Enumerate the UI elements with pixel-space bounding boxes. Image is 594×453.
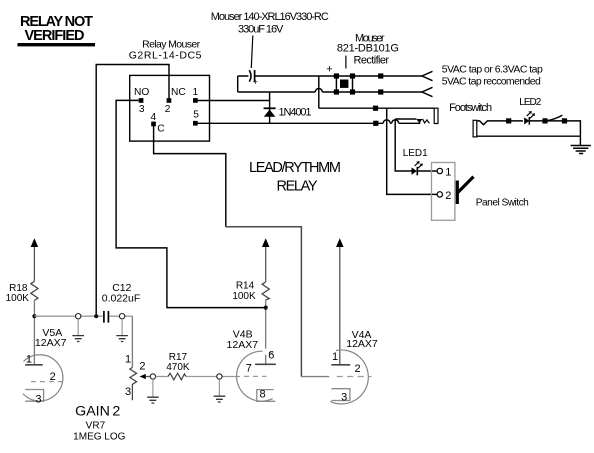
- svg-text:1: 1: [125, 353, 131, 365]
- svg-text:6: 6: [268, 350, 274, 362]
- svg-text:330uF 16V: 330uF 16V: [238, 23, 284, 35]
- svg-text:Rectifier: Rectifier: [354, 54, 390, 66]
- svg-text:5VAC tap reccomended: 5VAC tap reccomended: [442, 75, 541, 87]
- svg-text:3: 3: [125, 386, 131, 398]
- wire wiper circle to R17: [156, 376, 168, 378]
- tube V4B grid dashes: [244, 375, 267, 377]
- svg-text:2: 2: [139, 360, 145, 372]
- svg-text:+: +: [253, 76, 258, 86]
- relay K1 label Relay Mouser G2RL-14-DC5: [129, 39, 202, 62]
- tube V4A envelope: [330, 350, 368, 404]
- svg-text:8: 8: [259, 388, 265, 400]
- panel switch toggle lever: [457, 177, 473, 204]
- svg-text:Panel Switch: Panel Switch: [476, 198, 529, 209]
- wire NO to R14 junction: [116, 100, 266, 307]
- resistor R17: [168, 373, 186, 380]
- relay K1 pin 5 pad: [193, 121, 198, 126]
- resistor R14: [262, 282, 269, 300]
- svg-text:2: 2: [165, 104, 171, 115]
- svg-text:3: 3: [139, 104, 145, 115]
- wire hop 2 on pin5 line: [392, 120, 399, 124]
- tube V4B envelope: [237, 349, 273, 402]
- panel switch terminal 2: [437, 190, 451, 202]
- wire line A plus supply: [238, 75, 422, 77]
- svg-text:12AX7: 12AX7: [227, 339, 259, 351]
- svg-text:100K: 100K: [6, 293, 30, 304]
- svg-text:NO: NO: [134, 87, 149, 98]
- label LEAD/RYTHMM RELAY: [249, 160, 341, 195]
- tube V4B cathode: [257, 390, 275, 402]
- pot VR7 pin labels: [125, 353, 146, 398]
- tube V4A label: [346, 329, 378, 350]
- svg-text:3: 3: [35, 393, 41, 405]
- junction pads on AC lines: [378, 73, 383, 94]
- svg-text:Mouser 140-XRL16V330-RC: Mouser 140-XRL16V330-RC: [211, 11, 329, 23]
- tube V5A envelope: [23, 355, 63, 401]
- tube V5A label: [35, 327, 67, 349]
- label plus near rectifier: [326, 63, 332, 75]
- wire C12 right with terminal circle and ground: [110, 314, 133, 342]
- label LED1: [403, 148, 428, 159]
- svg-text:VERIFIED: VERIFIED: [25, 28, 85, 44]
- svg-text:1MEG LOG: 1MEG LOG: [73, 431, 125, 442]
- wire R18 to V5A plate: [33, 301, 35, 365]
- capacitor C-filter label Mouser 140-XRL16V330-RC 330uF 16V: [211, 11, 329, 68]
- svg-text:7: 7: [246, 363, 252, 375]
- junction pad footswitch line left: [506, 118, 511, 123]
- label R14 100K: [232, 281, 256, 302]
- wire LED1 to panel switch pin1: [417, 170, 437, 172]
- svg-text:Relay Mouser: Relay Mouser: [142, 39, 201, 51]
- resistor R18: [31, 281, 38, 300]
- wire R17 to V4B grid: [186, 376, 240, 378]
- arrowhead line B 5VAC tap: [422, 87, 433, 96]
- svg-text:GAIN: GAIN: [75, 403, 110, 419]
- svg-text:1: 1: [26, 354, 32, 366]
- svg-text:12AX7: 12AX7: [35, 337, 67, 349]
- label C12 0.022uF: [102, 282, 141, 305]
- svg-text:12AX7: 12AX7: [346, 338, 378, 350]
- resistor R18 supply arrow: [31, 238, 39, 281]
- svg-text:2: 2: [355, 363, 361, 375]
- terminal circle pot wiper with ground: [147, 374, 159, 403]
- tube V5A grid dashes: [31, 381, 62, 383]
- tube V5A pin labels: [26, 354, 56, 406]
- svg-text:4: 4: [150, 112, 156, 123]
- svg-text:1N4001: 1N4001: [279, 106, 312, 118]
- wire relay pin5 line with hops: [195, 122, 420, 124]
- node junction NC wire on C12 line: [94, 314, 98, 318]
- svg-text:C: C: [157, 124, 164, 135]
- wire line B: [238, 91, 422, 93]
- junction pad switch pivot: [542, 118, 547, 123]
- wire R14 to V4B plate: [265, 300, 267, 365]
- label 1N4001: [279, 106, 312, 118]
- potentiometer VR7: [130, 367, 150, 400]
- relay K1 pin labels: [134, 87, 199, 134]
- relay K1 pin NO/3 pad: [139, 98, 144, 103]
- junction pad on jack top line: [373, 106, 378, 111]
- wire C12 line: [34, 315, 102, 317]
- wire LED2 to right with switch: [477, 121, 581, 136]
- svg-text:G2RL-14-DC5: G2RL-14-DC5: [129, 50, 202, 62]
- svg-text:LED1: LED1: [403, 148, 428, 159]
- terminal circle on R17 line with ground: [214, 374, 226, 402]
- tube V4A pin labels: [332, 351, 361, 403]
- panel switch SW1 box: [432, 163, 455, 221]
- tube V4A supply arrow: [336, 238, 344, 364]
- svg-text:1: 1: [192, 87, 198, 98]
- wire down to pot VR7: [131, 316, 133, 367]
- wire NC loop to C12 line: [96, 65, 169, 317]
- junction pad switch right: [562, 118, 567, 123]
- tube V4A grid dashes: [337, 376, 372, 378]
- junction pad on pin5 line: [373, 121, 378, 126]
- wire plus supply to jack line: [319, 76, 434, 108]
- wire hop 1 on pin5 line: [383, 120, 390, 124]
- svg-text:2: 2: [50, 371, 56, 383]
- wire to panel switch pin2: [387, 108, 438, 194]
- svg-text:2: 2: [112, 403, 120, 419]
- wire relay pin C to V4A grid: [154, 126, 330, 377]
- svg-text:Footswitch: Footswitch: [449, 102, 492, 114]
- relay K1 pin NC/2 pad: [167, 98, 172, 103]
- tube V4A cathode: [331, 389, 350, 401]
- wire jack tip down to LED1: [395, 119, 411, 171]
- tube V4B label: [227, 328, 259, 351]
- panel switch terminal 1: [437, 166, 451, 178]
- node junction R14 NO wire: [264, 306, 268, 310]
- svg-text:100K: 100K: [232, 291, 256, 302]
- tube V5A cathode: [25, 390, 43, 402]
- terminal circle with ground left of C12: [72, 314, 84, 342]
- LED1: [412, 161, 423, 175]
- node junction R18 C12 line: [32, 314, 36, 318]
- capacitor C-filter 330uF symbol: [249, 70, 258, 86]
- LED2: [524, 111, 535, 125]
- capacitor C12: [104, 311, 109, 323]
- label Panel Switch: [476, 198, 529, 209]
- jack J1 relay jack: [395, 108, 438, 123]
- tube V5A plate: [25, 364, 43, 366]
- label R17 470K: [166, 352, 190, 373]
- label LED2: [519, 97, 541, 108]
- svg-text:NC: NC: [171, 87, 186, 98]
- label 5VAC taps: [442, 64, 543, 88]
- rectifier BR1: [334, 73, 355, 94]
- tube V4B plate: [255, 363, 276, 365]
- svg-text:VR7: VR7: [86, 421, 106, 432]
- svg-text:LEAD/RYTHMM: LEAD/RYTHMM: [249, 160, 341, 176]
- resistor R14 supply arrow: [262, 238, 270, 282]
- svg-text:0.022uF: 0.022uF: [102, 293, 141, 305]
- relay K1 pin 1 pad: [193, 98, 198, 103]
- label R18 100K: [6, 283, 30, 304]
- svg-text:5VAC tap or 6.3VAC tap: 5VAC tap or 6.3VAC tap: [442, 64, 543, 76]
- svg-text:5: 5: [193, 110, 199, 121]
- svg-text:RELAY: RELAY: [277, 178, 318, 194]
- svg-text:+: +: [326, 63, 332, 75]
- tube V4A plate: [331, 364, 350, 366]
- diode D1 1N4001: [264, 108, 276, 117]
- tube V4B pin labels: [246, 350, 275, 401]
- rectifier BR1 label Mouser 821-DB101G Rectifier: [337, 32, 399, 68]
- svg-text:LED2: LED2: [519, 97, 541, 108]
- relay K1 pin C/4 pad: [151, 122, 156, 127]
- svg-text:470K: 470K: [166, 362, 190, 373]
- switch blade on footswitch line: [546, 115, 562, 121]
- label Footswitch: [449, 102, 492, 114]
- wire hop on line B: [315, 89, 322, 93]
- label VR7 1MEG LOG: [73, 421, 125, 443]
- note RELAY NOT VERIFIED: [18, 14, 96, 46]
- wire diode vertical: [269, 92, 271, 123]
- label GAIN 2: [75, 403, 120, 419]
- svg-text:1: 1: [332, 351, 338, 363]
- jack J2 footswitch jack: [473, 120, 523, 137]
- svg-text:821-DB101G: 821-DB101G: [337, 42, 399, 54]
- ground footswitch circuit: [571, 136, 591, 153]
- arrowhead line A 5VAC tap: [422, 71, 433, 80]
- wire line A to line B left vertical: [237, 76, 239, 92]
- svg-text:3: 3: [341, 391, 347, 403]
- svg-text:2: 2: [445, 190, 451, 202]
- wire relay pin1 to diode: [195, 100, 269, 102]
- relay K1 body: [130, 75, 210, 141]
- svg-text:1: 1: [445, 166, 451, 178]
